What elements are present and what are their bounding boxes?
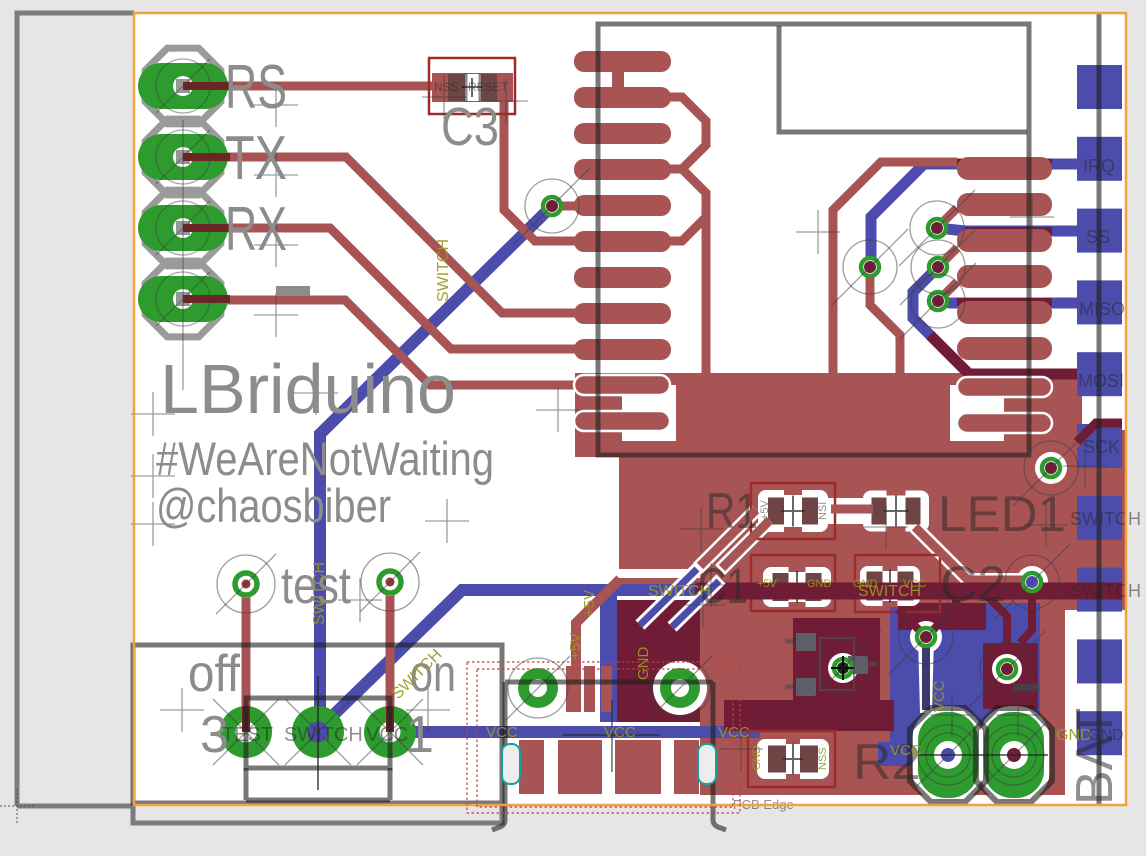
wire SWITCH pad to band [318,590,700,730]
module U1 left pad 3 [574,123,671,144]
dark IRQ over pad [957,159,1052,170]
dark SWITCH band over pour [695,583,1122,600]
wire teardrop stem dark [922,640,930,710]
via1007 minus mark [1013,684,1039,691]
wire module pad2-pad4 bracket [660,97,706,169]
svg-text:NSS: NSS [817,747,829,770]
usb VBUS pad [566,666,579,712]
wire via937 stub [937,208,957,228]
reference cross [996,693,1040,737]
reference cross [1063,444,1107,488]
via drill mark [994,544,1070,620]
usb dark pads under pour [620,666,648,712]
module U1 right pad 3 [957,229,1052,252]
module U1 left pad 9 [574,339,671,360]
module U1 right pad 5 [957,301,1052,324]
svg-text:SWITCH: SWITCH [284,724,363,746]
module U1 right pad 4 [957,265,1052,288]
switch pad X mark [213,699,279,765]
via drill mark [832,229,908,305]
wire via926 diag dark [926,600,956,637]
testpoint drill mark [360,552,420,612]
via drill mark [900,263,976,339]
wire GND header [183,300,578,385]
module U1 left pad 1 [574,51,671,72]
svg-text:R1: R1 [706,483,758,539]
usb X1 cyan holes [502,744,716,784]
reference cross [294,371,338,415]
svg-text:VCC: VCC [890,742,922,759]
module U1 left band pad b [574,411,670,431]
wire via938b stub [938,282,957,301]
wire test1 [242,584,251,732]
clearance LED1 via channel [915,527,1024,580]
via drill mark [805,630,881,706]
via 1032,582 [1021,571,1043,593]
reference cross [679,507,723,551]
module U1 left pad 10 [574,375,671,396]
usb X1 shield pad left [518,668,558,708]
edge pad ANT [1077,65,1122,109]
usb center cross [563,700,660,772]
wire MOSI to via [913,267,1077,374]
dark region regulator U2 [793,618,880,706]
via 843,668 [832,657,854,679]
reference cross [536,388,580,432]
usb pad drill mark [506,656,570,720]
testpoint drill mark [216,554,276,614]
svg-text:TEST: TEST [222,724,273,746]
via 1051,468 [1040,457,1062,479]
resistor R1 [751,483,835,539]
reference cross [425,499,469,543]
via843 crosshair [831,656,855,680]
blue pour near battery pad [878,742,934,766]
svg-text:SCK: SCK [1083,437,1120,457]
switch S1 inner body [246,698,390,768]
svg-text:SWITCH: SWITCH [311,562,328,625]
via 552,206 [541,195,563,217]
pad1-pad2 stub [612,61,624,91]
origin dotted cross [0,789,34,823]
clearance R1-LED1 channel [828,498,876,524]
reference cross [254,223,298,267]
svg-text:SWITCH: SWITCH [648,583,711,600]
dark region diode D3 [983,643,1038,709]
reference cross [131,502,175,546]
module U1 right band pad a [957,377,1052,397]
clearance band thermal left [622,385,676,441]
battery BAT1 pad minus [984,712,1044,798]
clearance via 843 [828,653,858,683]
svg-text:GND: GND [635,647,652,681]
svg-text:VCC: VCC [486,724,518,741]
dark SCK crossing [1077,423,1122,442]
wire MISO to via [938,301,1077,303]
U2 pads [796,633,868,696]
svg-text:VCC: VCC [366,724,408,746]
edge pad SS [1077,209,1122,253]
svg-text:#WeAreNotWaiting: #WeAreNotWaiting [156,432,494,485]
svg-text:VCC: VCC [931,680,948,712]
usb mount pad 4 [674,740,699,794]
module U1 left pad 6 [574,231,671,252]
reference cross [254,293,298,337]
capacitor C3 pads [432,73,513,102]
frame outline bottom [17,804,134,809]
header JP1 pin 2 [138,119,230,195]
dark region R2 top [724,700,894,731]
via 870,267 [859,256,881,278]
svg-text:VCC: VCC [903,578,926,590]
svg-text:RX: RX [225,195,287,264]
svg-text:SWITCH: SWITCH [435,239,452,302]
usb X1 shield pad right [660,668,700,708]
wire via926 diag dark b [898,609,926,637]
module U1 left band pad a [574,375,670,395]
usb D+ pad [601,666,612,712]
battery BAT1 outline left [910,708,986,802]
edge pad MOSI [1077,352,1122,396]
edge pad SW2 [1077,568,1122,612]
reference cross [796,210,840,254]
svg-text:GND: GND [853,578,878,590]
via drill mark [514,168,590,244]
module U1 left pad 5 [574,195,671,216]
dark GND pour region [617,600,700,722]
reference cross [719,727,763,771]
svg-text:+5V: +5V [759,499,771,520]
edge pad B2 [1077,711,1122,755]
module U1 outline [598,24,1029,455]
clearance band thermal right [950,385,1004,441]
wire test2 [386,582,395,732]
wire R1 to LED1 [831,505,873,514]
capacitor C1 [751,555,835,611]
switch S1 pad VCC [364,706,416,758]
svg-text:SWITCH: SWITCH [1070,581,1141,601]
wire RS [183,82,434,91]
module U1 left pad 8 [574,303,671,324]
svg-text:IRQ: IRQ [1083,156,1115,176]
svg-text:BAT: BAT [1066,708,1124,805]
copper pour main lower [700,610,1065,795]
svg-text:SWITCH: SWITCH [1070,509,1141,529]
via 926,637 [915,626,937,648]
via 938,267 [927,256,949,278]
clearance via SCK [1035,452,1067,484]
switch S1 enclosure [133,645,502,803]
switch sub-board outline below edge [133,806,502,823]
resistor R2 [748,731,835,787]
test point TP2 [376,568,404,596]
svg-text:GND: GND [1088,727,1124,744]
module U1 left pad 2 [574,87,671,108]
reference cross [864,505,908,549]
dark SS over pads [965,227,1052,235]
svg-text:MOSI: MOSI [1078,371,1124,391]
svg-text:GND: GND [807,578,832,590]
via 938,301 [927,290,949,312]
copper pour right edge strip [1082,430,1127,610]
clearance usb shield pad [511,661,565,715]
copper pour band under module [575,373,1051,457]
usb mount pad 3 [615,740,661,794]
wire via870 to band [870,267,900,373]
svg-text:VCC: VCC [604,724,636,741]
via drill mark [899,190,975,266]
blue pour middle region [890,603,1040,742]
wire IRQ to via [871,164,1077,267]
clearance via 1007 [992,654,1022,684]
header pin1 line [182,120,184,390]
switch S1 legs [246,768,390,800]
svg-text:RS: RS [225,53,287,122]
svg-text:@chaosbiber: @chaosbiber [156,479,391,532]
switch pad X mark [357,699,423,765]
capacitor C3 outline [429,58,515,114]
reference cross [131,454,175,498]
header JP1 pin 3 [138,190,230,266]
clearance via C2 [1016,566,1048,598]
edge pad IRQ [1077,137,1122,181]
U2 pin marks [785,641,877,687]
module U1 inner rect [779,26,1027,132]
svg-text:MISO: MISO [1079,299,1125,319]
svg-text:GND: GND [1056,727,1092,744]
reference cross [1024,503,1068,547]
via drill mark [900,229,976,305]
header JP1 pin 1 [138,48,230,124]
reference cross [254,83,298,127]
wire via1007 up dark [986,595,1007,646]
reference cross [926,570,970,614]
wire LED1 to via [915,527,1024,580]
capacitor C2 [855,555,940,612]
module U1 right band pad b [957,413,1052,433]
wire +5V block to usb [576,579,620,712]
wire C3 down to module [504,90,578,241]
blue pour GND region left [600,586,617,722]
switch pad center line [317,676,319,790]
copper pour right edge upper [1045,373,1082,478]
frame outline left and top [17,13,134,806]
wire TX [183,157,578,313]
svg-text:SS: SS [1086,227,1110,247]
clearance via teardrop 926 [910,621,942,653]
wire C1 blue diag crossing band [640,567,721,627]
switch S1 pad TEST [220,706,272,758]
reference cross [131,392,175,436]
edge pad SW1 [1077,496,1122,540]
reference cross [338,578,382,622]
wire R1 diag b [722,520,770,568]
svg-text:1: 1 [405,706,434,764]
usb D- pad [584,666,595,712]
copper pour main upper [700,457,1082,610]
reference cross [406,688,450,732]
module U1 left pad 4 [574,159,671,180]
reference cross [422,75,466,119]
usb pad drill mark [648,656,712,720]
header JP1 pin 4 [138,261,230,337]
svg-text:GND: GND [751,746,763,771]
svg-text:C2: C2 [940,556,1006,612]
wire SWITCH via to pad [320,206,552,718]
reference cross [681,583,725,627]
battery pad drill mark [980,721,1048,789]
reference cross [1010,195,1054,239]
wire module vertical to band [702,215,711,373]
module U1 left pad 11 [574,411,671,432]
svg-text:+5V: +5V [567,633,584,660]
svg-text:NSI: NSI [817,502,829,520]
wire SS to via [938,228,1077,231]
clearance battery pads [912,706,984,804]
svg-text:+5V: +5V [757,578,778,590]
label dash [276,286,310,296]
edge pad MISO [1077,280,1122,324]
via drill mark [969,631,1045,707]
reference cross [484,79,528,123]
wire module pad4-pad6 bracket [660,169,706,241]
module U1 right pad 6 [957,337,1052,360]
via drill mark [1013,430,1089,506]
wire RX [183,228,578,349]
battery BAT1 outline right [976,708,1052,802]
battery pads center line [918,754,1048,756]
test point TP1 [232,570,260,598]
reference cross [254,153,298,197]
battery pad drill mark [914,721,982,789]
wire SCK via up [1051,442,1077,468]
svg-text:VCC: VCC [718,724,750,741]
module U1 left pad 7 [574,267,671,288]
svg-text:C3: C3 [441,97,499,157]
svg-text:NSS: NSS [434,80,459,94]
via 1007,669 [996,658,1018,680]
edge pad SCK [1077,424,1122,468]
svg-text:+5V: +5V [581,590,598,617]
switch S1 pad COM [292,706,344,758]
battery BAT1 pad plus [918,712,978,798]
wire via938a stub [938,248,957,267]
LED LED1 [863,490,929,533]
usb mount pad 1 [519,740,544,794]
wire via552 to module pad5 [552,202,578,211]
wire VCC stub right [883,751,934,763]
svg-text:RESET: RESET [468,80,509,94]
switch pad X mark [285,699,351,765]
wire via1032 down dark [1020,592,1032,643]
wire R1 diag [700,510,756,566]
svg-text:LED1: LED1 [938,486,1066,542]
clearance usb gnd pad [653,661,707,715]
usb X1 courtyard dotted [467,662,740,813]
reference cross [160,688,204,732]
dark patch via926 [898,603,986,630]
copper pour strip under block [618,578,700,585]
dark MOSI over band [930,335,1077,374]
wire right top to band [833,162,957,373]
copper pour left block [619,455,746,569]
reference cross [689,563,733,607]
clearance R2 via channels [698,510,756,568]
reference cross [930,693,974,737]
edge pads outline line [1097,13,1102,806]
usb mount pad 2 [558,740,602,794]
svg-text:off: off [188,645,241,703]
wire VCC switch to usb [390,726,760,738]
usb X1 shell [492,682,726,830]
svg-text:TX: TX [225,124,287,193]
svg-text:LBriduino: LBriduino [160,350,456,428]
via 937,228 [926,217,948,239]
dark MISO over pads [957,298,1052,306]
edge pad B1 [1077,639,1122,683]
via drill mark [888,599,964,675]
module U1 right pad 2 [957,193,1052,216]
module U1 right pad 1 [957,157,1052,180]
